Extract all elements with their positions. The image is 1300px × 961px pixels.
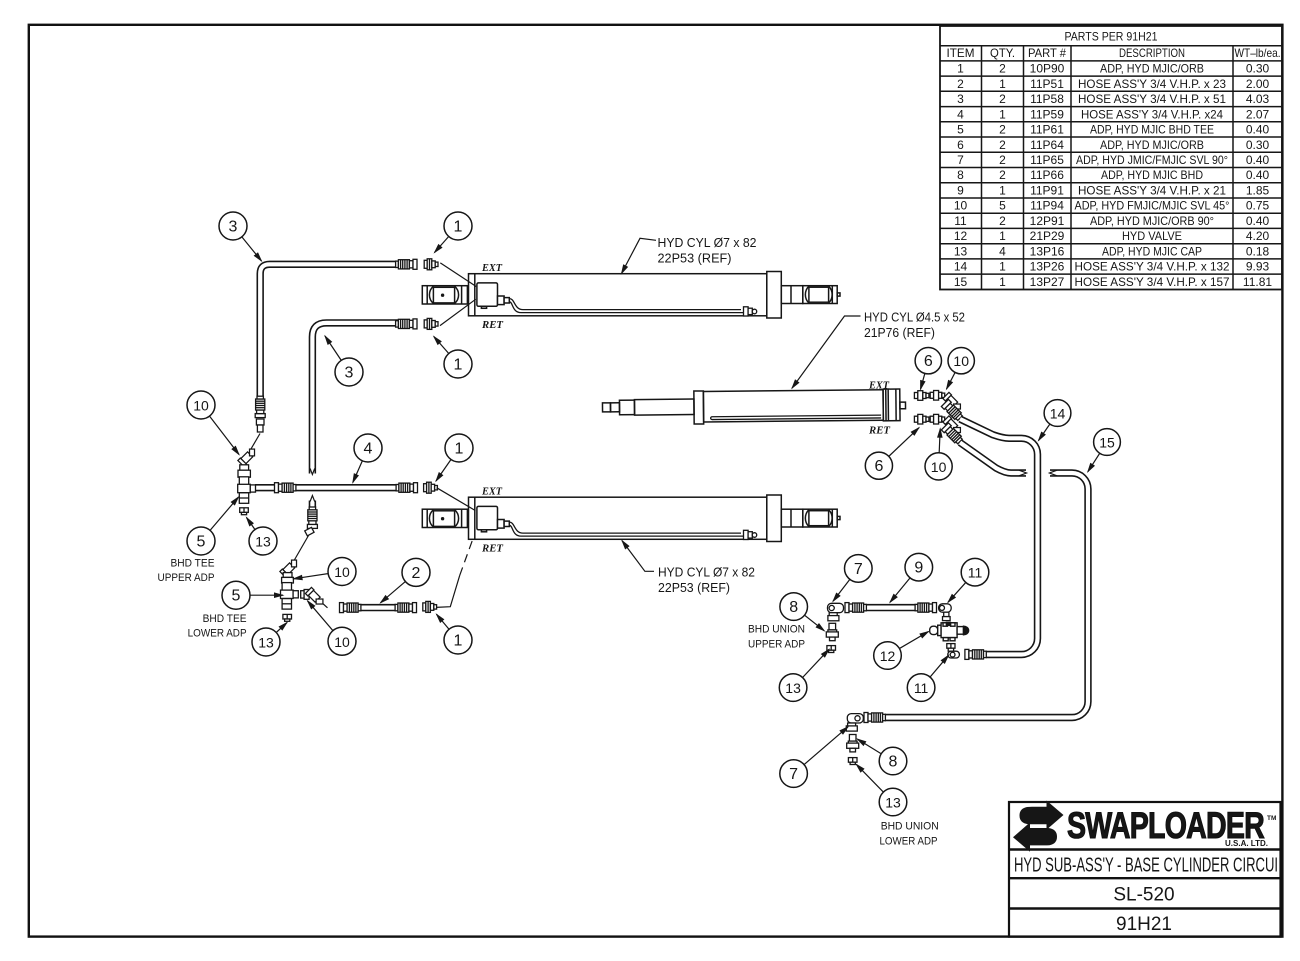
svg-text:1: 1 (999, 260, 1006, 274)
svg-text:RET: RET (868, 426, 891, 437)
90-deg elbow 11P65 item 7 upper (828, 603, 844, 621)
svg-text:SL-520: SL-520 (1113, 885, 1174, 906)
svg-text:4.03: 4.03 (1246, 92, 1270, 106)
svg-text:4.20: 4.20 (1246, 229, 1270, 243)
hose end crimp, hose 13P26 at valve (965, 649, 986, 659)
svg-text:HOSE ASS'Y 3/4 V.H.P. x24: HOSE ASS'Y 3/4 V.H.P. x24 (1081, 107, 1223, 121)
balloon 7, elbow at lower union (780, 760, 808, 788)
svg-text:11: 11 (954, 214, 967, 228)
balloon 8, upper BHD union (780, 593, 808, 621)
leader lines from adapters to ports (436, 263, 476, 608)
hose 2 (342, 604, 396, 611)
BHD union 11P66 item 8 lower (847, 735, 859, 752)
rod eyelet left (422, 286, 467, 304)
svg-text:ADP, HYD MJIC BHD TEE: ADP, HYD MJIC BHD TEE (1090, 123, 1214, 137)
svg-text:0.30: 0.30 (1246, 138, 1270, 152)
leader balloon 3 to hose bend (233, 226, 262, 261)
svg-text:22P53 (REF): 22P53 (REF) (658, 580, 730, 595)
leader balloon 13 to cap (793, 649, 829, 687)
svg-text:11P59: 11P59 (1030, 107, 1064, 121)
hose end crimp, hose 11P59 left (275, 483, 296, 493)
leader balloon 11 to elbow (921, 655, 948, 687)
svg-text:13: 13 (954, 244, 968, 258)
cap 13P16 item 13 at upper union (827, 646, 836, 653)
svg-text:HOSE ASS'Y 3/4 V.H.P. x 23: HOSE ASS'Y 3/4 V.H.P. x 23 (1078, 77, 1226, 91)
balloon 14, hose 13P26 (1044, 400, 1071, 427)
hose 15 (960, 443, 1026, 474)
45-deg swivel 11P94 item 10 EXT (943, 392, 963, 412)
balloon 7, elbow at upper union (845, 555, 873, 583)
balloon 15, hose 13P27 (1094, 429, 1121, 456)
hose end crimp, hose 11P91 right (915, 603, 936, 613)
hose 4 (255, 484, 398, 491)
leader balloon 2 to hose (381, 572, 417, 602)
svg-text:DESCRIPTION: DESCRIPTION (1119, 46, 1185, 60)
balloon 13, cap at lower union (879, 788, 907, 816)
svg-text:HOSE ASS'Y 3/4 V.H.P. x 51: HOSE ASS'Y 3/4 V.H.P. x 51 (1078, 92, 1226, 106)
90-deg adapter 12P91 item 11 valve inlet (939, 604, 952, 621)
end cap (767, 272, 782, 319)
crossing break hooks (1019, 470, 1027, 476)
leader balloon 13 to cap (856, 764, 893, 802)
leader balloon 10 to swivel (201, 405, 239, 455)
leader balloon 14 to hose (1039, 413, 1058, 441)
svg-text:6: 6 (957, 138, 964, 152)
adapter 10P90 item 1 (RET top cyl) (424, 318, 438, 329)
svg-text:5: 5 (999, 199, 1006, 213)
balloon 1, adapter EXT cyl 22P53 top (444, 212, 472, 240)
svg-text:11: 11 (968, 565, 983, 581)
svg-text:2: 2 (999, 168, 1006, 182)
svg-text:11P66: 11P66 (1030, 168, 1064, 182)
balloon 10, swivel at upper tee (187, 391, 215, 419)
rod right (781, 286, 803, 304)
adapter 10P90 item 1 (RET bottom cyl) (423, 601, 437, 612)
svg-text:13: 13 (885, 795, 901, 811)
svg-text:HYD SUB-ASS'Y - BASE CYLINDER: HYD SUB-ASS'Y - BASE CYLINDER CIRCUI (1014, 854, 1278, 877)
svg-text:EXT: EXT (481, 487, 503, 498)
leader balloon 7 to elbow (794, 727, 848, 774)
hose end crimp, vertical end hose 11P58 upper (255, 396, 265, 417)
svg-text:10P90: 10P90 (1030, 62, 1065, 76)
svg-text:HOSE ASS'Y 3/4 V.H.P. x 21: HOSE ASS'Y 3/4 V.H.P. x 21 (1078, 183, 1226, 197)
fitting 11 bottom (947, 644, 960, 658)
svg-text:10: 10 (954, 199, 968, 213)
leader balloon 6 to EXT nut (921, 361, 929, 390)
balloon 2, hose 11P51 (402, 558, 430, 586)
leader balloon 13 to cap (266, 623, 287, 643)
adapter 10P90 item 1 (EXT top cyl) (424, 259, 438, 270)
svg-text:PARTS PER 91H21: PARTS PER 91H21 (1065, 30, 1158, 44)
svg-text:1.85: 1.85 (1246, 183, 1270, 197)
svg-text:11P91: 11P91 (1030, 183, 1064, 197)
svg-text:0.40: 0.40 (1246, 153, 1270, 167)
svg-text:4: 4 (957, 107, 964, 121)
svg-text:HOSE ASS'Y 3/4 V.H.P. x 132: HOSE ASS'Y 3/4 V.H.P. x 132 (1075, 260, 1230, 274)
svg-text:15: 15 (1099, 435, 1115, 451)
balloon 10, EXT swivel 21P76 (948, 348, 974, 374)
leader balloon 13 to cap (247, 518, 264, 542)
svg-text:9: 9 (957, 183, 964, 197)
cap 13P16 item 13 at lower tee (283, 614, 292, 621)
svg-text:BHD TEE: BHD TEE (171, 558, 215, 570)
hyd cylinder 22P53 lower (copy) (422, 495, 840, 542)
leader balloon 5 to upper tee (201, 497, 239, 541)
45-deg swivel 11P94 item 10 RET (943, 416, 963, 436)
balloon 3, hose 11P58 upper (219, 212, 247, 240)
leader balloon 4 to hose (353, 448, 368, 483)
leader balloon 1 to adapter (436, 448, 459, 481)
svg-text:11P94: 11P94 (1030, 199, 1064, 213)
hose 9 assembly (846, 604, 936, 611)
cap 13P16 item 13 at lower union (848, 758, 857, 765)
svg-text:BHD TEE: BHD TEE (203, 613, 247, 625)
leader balloon 10 to RET swivel (939, 429, 941, 467)
leader balloon 9 to hose (890, 567, 919, 602)
svg-text:1: 1 (454, 633, 463, 650)
svg-text:13P16: 13P16 (1030, 244, 1065, 258)
leader balloon 1 to RET adapter (434, 337, 458, 365)
hose end crimp, vertical end hose 11P58 lower (307, 507, 317, 528)
balloon 10, swivel above lower tee (328, 558, 356, 586)
svg-text:7: 7 (957, 153, 964, 167)
balloon 1, adapter EXT cyl 22P53 bottom (445, 434, 473, 462)
svg-text:1: 1 (999, 77, 1006, 91)
rod eyelet right (803, 286, 837, 304)
svg-text:8: 8 (789, 599, 798, 616)
svg-text:HYD CYL Ø7 x 82: HYD CYL Ø7 x 82 (658, 235, 757, 250)
svg-text:2: 2 (999, 62, 1006, 76)
balloon 12, hyd valve (874, 642, 902, 670)
swivel nut item 10 RET (930, 414, 945, 424)
internal tube along bottom (510, 299, 742, 310)
svg-text:6: 6 (924, 353, 933, 370)
svg-text:91H21: 91H21 (1116, 914, 1172, 935)
svg-text:2: 2 (412, 565, 421, 582)
svg-text:0.18: 0.18 (1246, 244, 1270, 258)
svg-text:2.07: 2.07 (1246, 107, 1270, 121)
svg-text:4: 4 (364, 441, 373, 458)
balloon 6, EXT adapter 21P76 (915, 348, 941, 374)
svg-text:1: 1 (999, 275, 1006, 289)
svg-text:2: 2 (957, 77, 964, 91)
svg-text:10: 10 (193, 398, 209, 414)
svg-text:11: 11 (914, 680, 929, 696)
svg-text:2: 2 (999, 138, 1006, 152)
swaploader logo icon (1013, 801, 1064, 852)
svg-text:1: 1 (999, 107, 1006, 121)
svg-text:ADP, HYD FMJIC/MJIC SVL 45°: ADP, HYD FMJIC/MJIC SVL 45° (1075, 199, 1230, 213)
svg-text:1: 1 (454, 219, 463, 236)
hose end crimp, hose 11P51 right (395, 603, 416, 613)
svg-text:ADP, HYD MJIC CAP: ADP, HYD MJIC CAP (1102, 244, 1202, 258)
hyd cylinder 21P76 (middle, REF) (602, 389, 905, 425)
hyd cylinder 22P53 (top, REF) (422, 272, 840, 319)
svg-text:7: 7 (854, 561, 863, 578)
svg-text:9: 9 (914, 560, 923, 577)
svg-text:ADP, HYD MJIC BHD: ADP, HYD MJIC BHD (1101, 168, 1203, 182)
balloon 9, hose 11P91 (905, 553, 933, 581)
svg-text:6: 6 (874, 458, 883, 475)
svg-text:12P91: 12P91 (1030, 214, 1065, 228)
svg-text:3: 3 (229, 219, 238, 236)
svg-text:HYD CYL Ø7 x 82: HYD CYL Ø7 x 82 (658, 565, 755, 580)
leader balloon 3 to hose bend (325, 336, 349, 372)
svg-text:21P29: 21P29 (1030, 229, 1065, 243)
balloon 10, swivel right of lower tee (328, 627, 356, 655)
svg-text:14: 14 (954, 260, 968, 274)
svg-text:12: 12 (954, 229, 968, 243)
balloon 11, elbow at valve outlet (907, 674, 935, 702)
svg-text:11P51: 11P51 (1030, 77, 1064, 91)
svg-text:22P53 (REF): 22P53 (REF) (658, 251, 732, 266)
hose 3 (second) (312, 323, 398, 474)
svg-text:11P64: 11P64 (1030, 138, 1064, 152)
svg-text:4: 4 (999, 244, 1006, 258)
svg-text:1: 1 (999, 229, 1006, 243)
svg-text:0.40: 0.40 (1246, 123, 1270, 137)
balloon 13, cap at lower tee (252, 628, 280, 656)
45-deg swivel 11P94 item 10 right of lower tee (305, 587, 325, 607)
svg-text:2: 2 (999, 214, 1006, 228)
svg-text:UPPER ADP: UPPER ADP (158, 572, 215, 584)
45-deg swivel 11P94 item 10 at upper tee (238, 446, 258, 466)
hose end crimp, hose 11P58 upper (396, 259, 417, 269)
hose 3 (first): top run into vertical drop (260, 264, 398, 396)
leader balloon 7 to elbow (833, 568, 858, 601)
svg-text:HYD VALVE: HYD VALVE (1122, 229, 1182, 243)
balloon 4, hose 11P59 (354, 434, 382, 462)
svg-text:HOSE ASS'Y 3/4 V.H.P. x 157: HOSE ASS'Y 3/4 V.H.P. x 157 (1075, 275, 1230, 289)
adapter 10P90 item 1 (EXT bottom cyl) (424, 482, 438, 493)
balloon 1, adapter RET cyl 22P53 top (444, 350, 472, 378)
balloon 11, elbow at valve inlet (961, 558, 989, 586)
svg-text:0.40: 0.40 (1246, 168, 1270, 182)
svg-text:1: 1 (454, 357, 463, 374)
valve 12 (930, 622, 969, 640)
svg-text:1: 1 (957, 62, 964, 76)
svg-text:2: 2 (999, 123, 1006, 137)
balloon 6, RET adapter 21P76 (865, 452, 892, 479)
svg-text:11.81: 11.81 (1243, 275, 1272, 289)
svg-text:ADP, HYD JMIC/FMJIC SVL 90°: ADP, HYD JMIC/FMJIC SVL 90° (1076, 153, 1228, 167)
svg-text:5: 5 (197, 534, 206, 551)
svg-text:3: 3 (957, 92, 964, 106)
svg-text:PART #: PART # (1028, 46, 1066, 60)
BHD tee 11P61 item 5 lower (281, 583, 299, 610)
svg-text:10: 10 (931, 459, 947, 475)
hose end crimp, hose 13P26 (941, 399, 963, 421)
svg-text:11P58: 11P58 (1030, 92, 1064, 106)
hose end crimp, hose 13P27 (941, 423, 963, 445)
balloon 5, upper BHD tee (187, 527, 215, 555)
svg-text:BHD UNION: BHD UNION (881, 821, 939, 833)
svg-text:1: 1 (999, 183, 1006, 197)
hose end crimp, hose 11P59 right (396, 483, 417, 493)
balloon 5, lower BHD tee (222, 581, 250, 609)
hose end crimp, hose 11P91 left (845, 603, 866, 613)
label leaders (622, 238, 861, 571)
hose end crimp, hose 11P51 left (340, 603, 361, 613)
svg-text:0.40: 0.40 (1246, 214, 1270, 228)
leader balloon 10 to swivel (308, 601, 343, 642)
svg-text:8: 8 (889, 754, 898, 771)
tube end fitting (744, 307, 749, 316)
balloon 13, cap at upper union (779, 674, 807, 702)
svg-text:EXT: EXT (868, 381, 890, 392)
adapter 11P64 item 6 RET (914, 414, 929, 424)
svg-text:13: 13 (255, 534, 271, 550)
svg-text:2.00: 2.00 (1246, 77, 1270, 91)
barrel (469, 274, 767, 316)
svg-text:2: 2 (999, 153, 1006, 167)
svg-text:21P76 (REF): 21P76 (REF) (864, 325, 935, 340)
svg-text:13P27: 13P27 (1030, 275, 1065, 289)
svg-text:LOWER ADP: LOWER ADP (188, 628, 247, 640)
svg-text:ADP, HYD MJIC/ORB 90°: ADP, HYD MJIC/ORB 90° (1090, 214, 1214, 228)
BHD union 11P66 item 8 upper (826, 623, 838, 640)
cap 13P16 item 13 at upper tee (240, 508, 249, 515)
svg-text:5: 5 (957, 123, 964, 137)
svg-text:U.S.A. LTD.: U.S.A. LTD. (1225, 838, 1268, 848)
svg-text:10: 10 (953, 353, 969, 369)
hose end crimp, hose 11P58 lower (396, 319, 417, 329)
balloon 10, RET swivel 21P76 (925, 453, 952, 480)
svg-text:LOWER ADP: LOWER ADP (880, 836, 938, 848)
balloon 8, lower BHD union (879, 747, 907, 775)
svg-text:7: 7 (789, 766, 798, 783)
port block (477, 283, 498, 306)
nut + 45 elbow right of lower tee (item 10) (301, 590, 309, 600)
svg-text:10: 10 (334, 564, 350, 580)
leader balloon 11 to elbow (948, 572, 975, 602)
svg-text:13P26: 13P26 (1030, 260, 1065, 274)
leader balloon 8 to union (794, 607, 825, 631)
svg-text:UPPER ADP: UPPER ADP (748, 639, 805, 651)
svg-text:WT–lb/ea.: WT–lb/ea. (1235, 46, 1281, 60)
svg-text:10: 10 (334, 634, 350, 650)
leader balloon 10 to swivel (294, 572, 343, 579)
svg-text:8: 8 (957, 168, 964, 182)
leader balloon 8 to union (857, 739, 893, 761)
hose end crimp, hose 13P27 at lower union (864, 713, 885, 723)
svg-text:9.93: 9.93 (1246, 260, 1270, 274)
BHD tee 11P61 item 5 upper (238, 477, 256, 504)
svg-text:0.30: 0.30 (1246, 62, 1270, 76)
svg-text:5: 5 (232, 588, 241, 605)
45-deg swivel 11P94 item 10 above lower tee (280, 557, 300, 577)
balloon 1, adapter RET cyl 22P53 bottom (444, 626, 472, 654)
svg-text:BHD UNION: BHD UNION (748, 624, 805, 636)
leader balloon 10 to EXT swivel (947, 361, 962, 389)
svg-text:2: 2 (999, 92, 1006, 106)
hose 14 (885, 419, 1088, 718)
svg-text:0.75: 0.75 (1246, 199, 1270, 213)
svg-text:RET: RET (481, 544, 504, 555)
svg-text:HYD CYL Ø4.5 x 52: HYD CYL Ø4.5 x 52 (864, 310, 965, 325)
leader balloon 6 to RET nut (879, 428, 919, 466)
leader balloon 12 to valve (888, 632, 929, 656)
svg-text:11P65: 11P65 (1030, 153, 1064, 167)
balloon 3, hose 11P58 lower (335, 358, 363, 386)
svg-text:13: 13 (785, 680, 801, 696)
svg-text:ADP, HYD MJIC/ORB: ADP, HYD MJIC/ORB (1100, 138, 1204, 152)
svg-text:RET: RET (481, 320, 504, 331)
svg-text:11P61: 11P61 (1030, 123, 1064, 137)
balloon 13, cap at upper tee (249, 527, 277, 555)
svg-text:15: 15 (954, 275, 968, 289)
svg-text:14: 14 (1050, 406, 1066, 422)
leader balloon 1 to EXT adapter (435, 226, 459, 253)
svg-text:QTY.: QTY. (990, 46, 1015, 60)
swivel nut item 10 EXT (930, 391, 945, 401)
leader balloon 5 to lower tee (236, 594, 283, 596)
svg-text:12: 12 (880, 648, 896, 664)
svg-text:EXT: EXT (481, 263, 503, 274)
svg-text:TM: TM (1267, 815, 1276, 822)
svg-text:3: 3 (345, 365, 354, 382)
leader balloon 15 to hose (1088, 442, 1107, 472)
leader balloon 1 to adapter (437, 614, 459, 640)
svg-text:1: 1 (455, 441, 464, 458)
svg-text:ITEM: ITEM (947, 46, 975, 60)
adapter 11P64 item 6 EXT (914, 391, 929, 401)
svg-text:13: 13 (258, 635, 274, 651)
svg-text:ADP, HYD MJIC/ORB: ADP, HYD MJIC/ORB (1100, 62, 1204, 76)
